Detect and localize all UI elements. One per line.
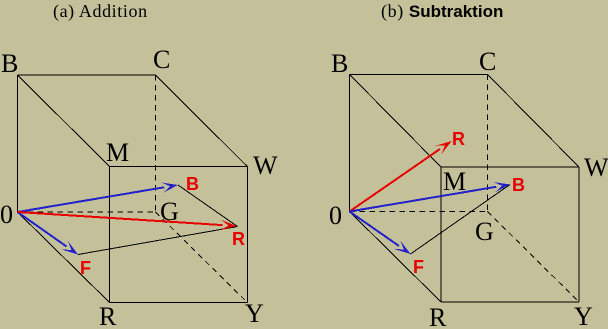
svg-text:R: R — [429, 303, 447, 329]
svg-text:(b) Subtraktion: (b) Subtraktion — [381, 1, 503, 22]
right cube edge B-C — [350, 74, 488, 76]
svg-text:B: B — [186, 174, 199, 194]
svg-text:G: G — [475, 217, 494, 246]
svg-text:R: R — [452, 129, 465, 149]
left cube hidden edge C-G dashed — [155, 75, 157, 212]
svg-text:B: B — [1, 49, 18, 78]
right cube edge 0-B — [349, 75, 351, 212]
left cube edge 0-B — [17, 75, 19, 212]
left cube edge R-Y — [110, 302, 248, 304]
svg-text:R: R — [232, 229, 245, 249]
left cube edge W-Y — [246, 167, 248, 303]
right cube edge C-W — [488, 75, 580, 168]
svg-text:C: C — [153, 45, 170, 74]
svg-text:C: C — [479, 47, 496, 76]
right cube edge W-Y — [578, 167, 580, 302]
left cube edge M-W — [110, 166, 248, 168]
svg-text:(a) Addition: (a) Addition — [53, 1, 148, 22]
svg-text:R: R — [99, 302, 117, 329]
right cube hidden edge 0-G dashed — [350, 211, 488, 213]
left cube edge B-C — [18, 74, 156, 76]
left vector F blue arrow — [18, 212, 79, 255]
right cube edge M-R — [440, 167, 442, 302]
svg-text:B: B — [512, 175, 525, 195]
svg-text:0: 0 — [329, 201, 342, 230]
svg-text:W: W — [584, 153, 608, 182]
svg-text:W: W — [253, 151, 278, 180]
left cube edge 0-R — [18, 212, 110, 303]
right vector R red arrow — [350, 141, 452, 212]
left cube edge C-W — [156, 75, 248, 167]
right cube edge 0-R — [350, 212, 442, 303]
left cube hidden edge 0-G dashed — [18, 211, 156, 213]
svg-text:Y: Y — [245, 299, 264, 328]
right cube edge M-W — [441, 166, 579, 168]
right cube edge R-Y — [441, 301, 579, 303]
svg-text:0: 0 — [0, 200, 13, 229]
left cube edge M-R — [109, 167, 111, 303]
left parallelogram side B-tip to R-tip — [178, 185, 238, 227]
svg-text:Y: Y — [574, 302, 593, 329]
svg-text:B: B — [331, 49, 348, 78]
left vector R red arrow — [18, 212, 237, 230]
right cube edge B-M — [350, 75, 442, 168]
right cube hidden edge G-Y dashed — [488, 212, 580, 303]
right difference line F-tip to B-tip — [411, 185, 511, 255]
svg-text:M: M — [443, 167, 466, 196]
right vector B blue arrow — [350, 182, 511, 212]
right vector F blue arrow — [350, 212, 411, 255]
svg-text:F: F — [413, 257, 424, 277]
left cube edge B-M — [18, 75, 110, 167]
svg-text:F: F — [80, 258, 91, 278]
left cube hidden edge G-Y dashed — [156, 212, 248, 303]
left parallelogram side F-tip to R-tip — [78, 227, 238, 255]
right cube hidden edge C-G dashed — [487, 75, 489, 212]
svg-text:M: M — [106, 138, 129, 167]
svg-text:G: G — [160, 197, 179, 226]
left vector B blue arrow — [18, 183, 179, 213]
